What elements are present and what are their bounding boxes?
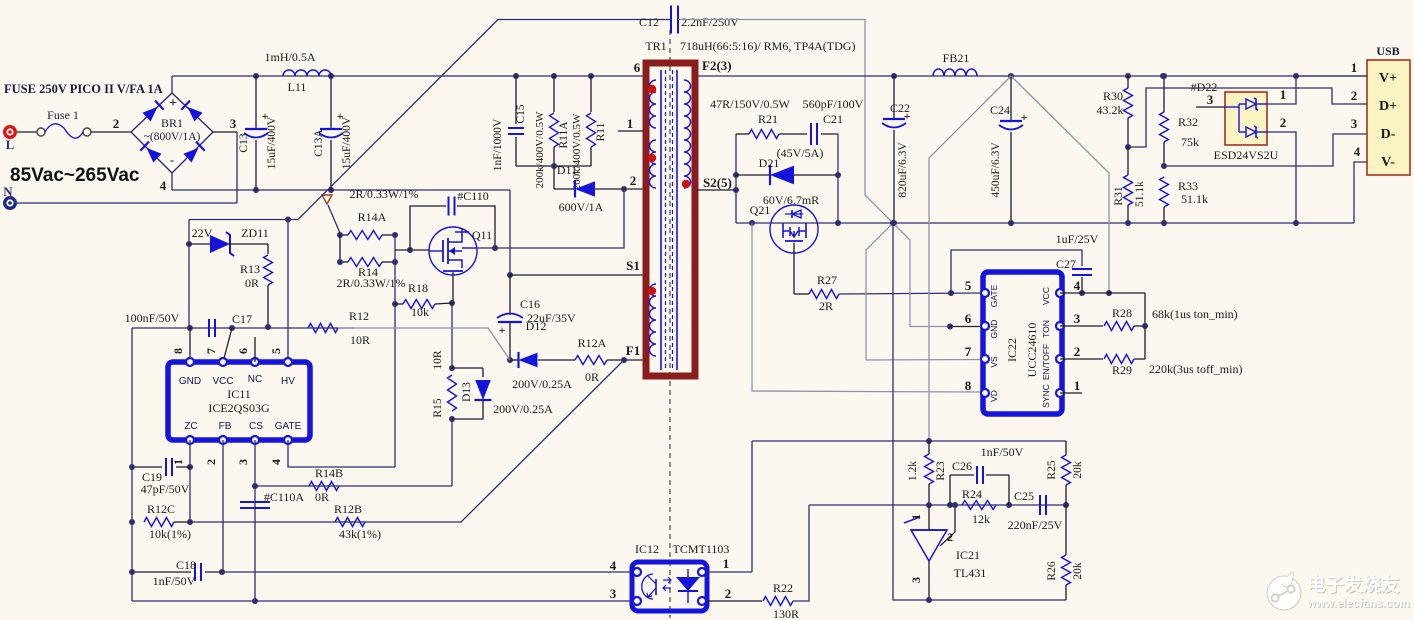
svg-text:43.2k: 43.2k — [1097, 103, 1124, 117]
IC12 pin circle — [633, 568, 641, 576]
junction C22 bottom — [891, 220, 897, 226]
svg-text:CS: CS — [249, 421, 263, 432]
ESD array #D22 box — [1225, 92, 1267, 145]
wire ZD11 anode lead — [189, 243, 211, 245]
junction C13 bottom — [253, 187, 259, 193]
wire #C110 left leg — [410, 206, 446, 250]
wire VCC feed from output — [1011, 76, 1109, 293]
svg-text:130R: 130R — [773, 607, 799, 620]
TR1 core dashed right — [672, 70, 674, 370]
wire C12 net diagonal — [189, 20, 498, 220]
junction R14A left — [337, 232, 343, 238]
IC12 pin circle — [698, 597, 706, 605]
IC11 pin 4 circle — [284, 436, 292, 444]
resistor R14A — [348, 231, 382, 240]
capacitor #C110A — [240, 501, 270, 503]
wire C27 loop — [951, 250, 1082, 293]
junction HV column — [285, 217, 291, 223]
wire Q11 source — [452, 272, 454, 303]
svg-text:VCC: VCC — [212, 376, 233, 387]
capacitor C18 — [194, 563, 196, 581]
svg-text:R15: R15 — [432, 398, 444, 417]
svg-text:R11A: R11A — [558, 121, 570, 149]
wire +5V top rail (secondary) — [697, 75, 1368, 77]
IC11 pin 6 circle — [251, 358, 259, 366]
wire C12 to secondary ground — [678, 20, 893, 224]
wire primary gnd bottom rail — [132, 600, 632, 602]
svg-text:D-: D- — [1381, 127, 1396, 142]
wire R14 left link — [340, 261, 348, 263]
wire R12A to F1 — [607, 359, 644, 361]
IC11 pin 8 stub — [189, 328, 191, 362]
net port marker (primary return) — [322, 195, 332, 204]
optocoupler IC12 box — [632, 562, 707, 611]
svg-text:1: 1 — [909, 514, 923, 520]
capacitor C26 — [976, 466, 978, 484]
IC12 pin circle — [633, 597, 641, 605]
svg-text:R28: R28 — [1112, 306, 1132, 320]
svg-text:51.1k: 51.1k — [1181, 192, 1208, 206]
svg-text:2: 2 — [947, 530, 953, 544]
wire D21 box right column — [837, 134, 839, 223]
capacitor #C110 — [448, 197, 450, 216]
capacitor C15 — [508, 127, 524, 129]
svg-text:0R: 0R — [315, 490, 329, 504]
TR1 aux winding (S1-F1) — [650, 284, 657, 356]
#D22 diode lower — [1239, 131, 1246, 133]
IC11 pin 7 circle — [219, 358, 227, 366]
svg-text:VS: VS — [989, 356, 999, 368]
svg-text:D11: D11 — [557, 163, 577, 177]
resistor R15 — [448, 375, 457, 411]
wire R26 bottom lead — [1065, 585, 1067, 600]
resistor R11 wire bottom — [590, 147, 592, 166]
junction Q11 source/R18 — [449, 300, 455, 306]
svg-text:10k(1%): 10k(1%) — [149, 527, 191, 541]
svg-text:1: 1 — [1074, 378, 1081, 393]
svg-text:3: 3 — [1074, 311, 1081, 326]
capacitor C26 row — [950, 474, 974, 476]
junction GATE/C27 — [948, 290, 954, 296]
resistor R25 — [1062, 455, 1071, 485]
svg-text:FUSE 250V PICO II V/FA 1A: FUSE 250V PICO II V/FA 1A — [4, 82, 163, 96]
wire D13 bottom link — [452, 400, 483, 419]
resistor R18 — [403, 300, 435, 309]
transistor Q11 (primary MOSFET) — [429, 227, 477, 275]
svg-text:www.elecfans.com: www.elecfans.com — [1306, 598, 1409, 610]
wire C26 right — [986, 474, 1009, 476]
resistor R11 wire top — [590, 76, 592, 112]
junction R24 row right — [1006, 502, 1012, 508]
wire gnd kelvin to pin6 — [893, 223, 950, 327]
resistor R29 lead — [1060, 358, 1103, 360]
wire comp C26 left leg — [949, 475, 951, 505]
capacitor C13A wire top — [330, 76, 332, 128]
svg-text:15uF/400V: 15uF/400V — [266, 116, 278, 169]
svg-text:3: 3 — [610, 586, 617, 601]
svg-text:C13A: C13A — [313, 129, 325, 157]
IC22 pin 5 circle — [981, 289, 989, 297]
junction C18 left — [129, 569, 135, 575]
wire R13 top lead — [267, 244, 269, 254]
wire port to R14A node — [328, 205, 340, 233]
svg-text:4: 4 — [1074, 278, 1081, 293]
junction C17 right — [229, 325, 235, 331]
junction TL431 cathode — [926, 502, 932, 508]
wire R14B row — [255, 485, 452, 487]
capacitor C13 wire top — [255, 76, 257, 128]
wire Q11 gate — [395, 249, 429, 251]
svg-text:2R/0.33W/1%: 2R/0.33W/1% — [350, 187, 419, 201]
wire S1 to transformer — [510, 274, 644, 276]
svg-text:4: 4 — [1354, 144, 1361, 159]
resistor R11A wire top — [553, 76, 555, 112]
svg-text:10R: 10R — [432, 350, 444, 370]
svg-text:450uF/6.3V: 450uF/6.3V — [990, 142, 1002, 198]
wire C18 right — [205, 571, 222, 573]
resistor R31 lead — [1127, 147, 1129, 175]
junction C22 top — [891, 73, 897, 79]
diode D11 600V/1A — [575, 181, 595, 197]
svg-text:R31: R31 — [1113, 186, 1125, 205]
junction C15 top — [513, 73, 519, 79]
svg-text:GND: GND — [179, 376, 201, 387]
svg-text:1uF/25V: 1uF/25V — [1056, 232, 1099, 246]
svg-text:3: 3 — [230, 116, 237, 131]
junction R24 row left — [947, 502, 953, 508]
transformer TR1 outline — [646, 63, 695, 376]
junction C16/D12 node — [507, 357, 513, 363]
wire VCC row extension — [1060, 292, 1145, 294]
svg-text:C17: C17 — [232, 312, 252, 326]
junction R25 bottom/C25 — [1063, 502, 1069, 508]
junction pin1/V+ rail — [1293, 73, 1299, 79]
svg-text:R27: R27 — [817, 273, 837, 287]
wire D12 cathode lead — [510, 359, 519, 361]
svg-text:100nF/50V: 100nF/50V — [125, 311, 180, 325]
svg-text:2: 2 — [204, 459, 218, 465]
USB connector box — [1367, 60, 1410, 175]
capacitor C15 wire bottom — [515, 137, 517, 166]
wire negative rail — [172, 189, 510, 191]
svg-text:6: 6 — [965, 311, 972, 326]
svg-text:51.1k: 51.1k — [1134, 181, 1146, 207]
resistor R23 — [925, 454, 934, 484]
svg-text:1nF/50V: 1nF/50V — [981, 445, 1024, 459]
wire D21 anode lead — [794, 174, 838, 176]
svg-text:1.2k: 1.2k — [907, 461, 919, 481]
svg-text:GATE: GATE — [275, 421, 302, 432]
svg-text:EN/TOFF: EN/TOFF — [1041, 344, 1051, 380]
svg-text:22V: 22V — [192, 226, 213, 240]
svg-text:2: 2 — [1351, 88, 1358, 103]
junction snubber/D11 — [551, 163, 557, 169]
junction C13 top — [253, 73, 259, 79]
wire divider to opto column — [751, 441, 753, 572]
wire C21 to right column — [821, 133, 838, 135]
IC12 pin circle — [698, 568, 706, 576]
IC U11 box (IC11 ICE2QS03G) — [168, 362, 310, 440]
svg-text:+: + — [1021, 110, 1028, 124]
wire left column — [131, 328, 133, 601]
resistor R13 — [264, 255, 273, 285]
svg-text:IC21: IC21 — [956, 548, 980, 562]
wire feedback column from output — [929, 76, 1011, 441]
svg-text:2: 2 — [113, 116, 120, 131]
junction R13/VCC rail — [265, 324, 271, 330]
wire R14A right link — [382, 234, 395, 236]
wire VS sense from gnd — [866, 223, 893, 360]
resistor R18 lead right — [435, 303, 452, 304]
capacitor C17 — [208, 319, 210, 337]
IC12 phototransistor — [642, 574, 653, 599]
svg-text:IC22: IC22 — [1005, 338, 1019, 362]
IC22 pin 4 circle — [1056, 289, 1064, 297]
resistor R11 — [587, 113, 596, 147]
svg-text:ICE2QS03G: ICE2QS03G — [208, 401, 270, 415]
svg-text:GATE: GATE — [989, 284, 999, 307]
junction F1 — [621, 357, 627, 363]
junction R31 bottom — [1125, 220, 1131, 226]
bridge rectifier BR1 — [131, 93, 213, 173]
svg-text:+: + — [499, 323, 506, 337]
wire R27 to IC22 GATE — [839, 293, 983, 294]
svg-text:TCMT1103: TCMT1103 — [673, 542, 730, 556]
bridge diode top-left — [142, 107, 157, 122]
capacitor C21 — [810, 123, 812, 145]
junction #C110 tap — [407, 247, 413, 253]
watermark logo — [1266, 572, 1301, 610]
junction FB/C18 — [219, 569, 225, 575]
wire R12C to ZC — [174, 521, 190, 523]
junction R30/R31 — [1125, 144, 1131, 150]
svg-text:TL431: TL431 — [954, 566, 987, 580]
junction Q21 gate tap — [749, 220, 755, 226]
wire pin6 stub — [950, 326, 983, 328]
svg-text:6: 6 — [236, 348, 250, 354]
wire R14 parallel left — [339, 235, 341, 262]
svg-text:HV: HV — [281, 376, 295, 387]
wire R14A left link — [340, 234, 348, 236]
junction R11A top — [551, 73, 557, 79]
svg-text:SYNC: SYNC — [1041, 384, 1051, 408]
svg-text:1: 1 — [171, 459, 185, 465]
isolation barrier dashed line — [669, 30, 671, 618]
TR1 polarity dot winding B — [648, 154, 656, 162]
wire R13 bottom lead — [267, 285, 269, 327]
svg-text:R13: R13 — [240, 262, 260, 276]
wire D- feed — [1164, 134, 1368, 166]
wire D21 box left column — [735, 134, 737, 223]
IC11 pin 1 circle — [186, 436, 194, 444]
wire CS column upper — [254, 440, 256, 486]
wire N to node3 column — [17, 202, 237, 204]
wire R21 to C21 — [779, 133, 807, 135]
svg-text:85Vac~265Vac: 85Vac~265Vac — [10, 165, 140, 186]
resistor R30 — [1124, 88, 1133, 118]
wire R21 top row left — [736, 133, 749, 135]
junction TL431 anode — [926, 597, 932, 603]
svg-text:68k(1us ton_min): 68k(1us ton_min) — [1152, 307, 1238, 321]
wire VS to pin7 — [866, 359, 983, 362]
svg-text:TR1: TR1 — [645, 39, 666, 53]
svg-text:ZD11: ZD11 — [241, 226, 269, 240]
resistor R11A — [550, 113, 559, 147]
IC11 pin 2 circle — [219, 436, 227, 444]
diode D12 — [519, 353, 538, 368]
svg-text:F1: F1 — [626, 343, 640, 358]
svg-text:#C110A: #C110A — [264, 490, 305, 504]
svg-text:200V/0.25A: 200V/0.25A — [493, 402, 553, 416]
wire S1 node down — [509, 190, 511, 275]
svg-text:+: + — [169, 96, 177, 111]
junction CS bottom rail — [252, 598, 258, 604]
svg-text:75k: 75k — [1181, 135, 1199, 149]
svg-text:1nF/1000V: 1nF/1000V — [492, 118, 504, 171]
junction C17 left / GND pin — [187, 325, 193, 331]
bridge diode bottom-right — [183, 148, 198, 163]
IC22 pin 3 circle — [1056, 322, 1064, 330]
junction D21 right — [835, 172, 841, 178]
resistor R33 — [1160, 177, 1169, 207]
wire C16 top lead — [509, 275, 511, 315]
svg-text:R21: R21 — [758, 112, 778, 126]
svg-text:C21: C21 — [823, 112, 843, 126]
wire +400V top rail (left) — [172, 75, 644, 77]
svg-text:7: 7 — [965, 344, 972, 359]
capacitor C13 — [245, 128, 267, 130]
svg-text:R33: R33 — [1178, 179, 1198, 193]
diode D13 — [475, 380, 491, 400]
wire R28 right — [1134, 325, 1145, 327]
IC12 coupling arrows — [663, 577, 671, 591]
svg-text:15uF/400V: 15uF/400V — [341, 116, 353, 169]
resistor R25 lead top — [1065, 441, 1067, 455]
junction R11 top — [588, 73, 594, 79]
junction S2 node — [733, 187, 739, 193]
resistor R30 lead — [1127, 76, 1129, 88]
wire D13 leads — [482, 368, 484, 377]
wire source column — [451, 303, 453, 368]
capacitor C13A wire bottom — [330, 140, 332, 190]
wire D21 cathode lead — [736, 174, 770, 176]
IC IC21 TL431 — [928, 505, 930, 530]
junction R15 top — [449, 365, 455, 371]
wire node3 down to neutral — [236, 132, 238, 203]
IC22 pin 8 circle — [981, 389, 989, 397]
svg-text:D21: D21 — [759, 156, 780, 170]
svg-text:R29: R29 — [1112, 363, 1132, 377]
wire R12 to C16 node (VCC charge) — [338, 328, 510, 360]
wire C19 right — [176, 466, 190, 468]
wire CS filter column — [254, 486, 256, 601]
junction ZD11 node — [186, 241, 192, 247]
wire fuse to bridge node 2 — [91, 131, 131, 133]
diode D21 — [770, 166, 794, 185]
junction R32 top — [1161, 73, 1167, 79]
junction R28/R29 — [1142, 323, 1148, 329]
svg-text:8: 8 — [965, 378, 972, 393]
fuse F1 (Fuse 1) — [37, 128, 45, 136]
TR1 core line left — [660, 70, 662, 370]
resistor R26 — [1062, 555, 1071, 585]
svg-text:电子发烧友: 电子发烧友 — [1307, 574, 1400, 595]
svg-text:R12C: R12C — [147, 502, 175, 516]
svg-text:R12B: R12B — [334, 502, 362, 516]
svg-text:IC11: IC11 — [227, 387, 251, 401]
wire S2 to sync fet box — [697, 189, 736, 191]
wire R14 right link — [382, 261, 395, 263]
svg-text:R12: R12 — [349, 309, 369, 323]
svg-text:R11: R11 — [595, 122, 607, 141]
resistor R11A wire bottom — [553, 147, 555, 166]
IC11 pin 8 circle — [186, 358, 194, 366]
svg-text:N: N — [3, 184, 13, 199]
svg-text:4: 4 — [269, 459, 283, 465]
svg-text:ESD24VS2U: ESD24VS2U — [1214, 148, 1279, 162]
svg-text:C25: C25 — [1014, 489, 1034, 503]
bridge diode top-right — [188, 107, 203, 122]
terminal L (line input) — [3, 125, 17, 139]
junction V+ rail end — [1160, 73, 1166, 79]
svg-text:2.2nF/250V: 2.2nF/250V — [681, 15, 739, 29]
ferrite bead FB21 — [933, 69, 977, 76]
IC22 pin 2 circle — [1056, 355, 1064, 363]
junction gate/R18 — [392, 301, 398, 307]
wire ZD11 feed down — [188, 220, 190, 329]
svg-text:200k/400V/0.5W: 200k/400V/0.5W — [534, 111, 546, 188]
TR1 primary winding B (pins 1-2) — [650, 140, 657, 188]
svg-text:10k: 10k — [411, 305, 429, 319]
resistor R27 — [809, 290, 839, 299]
junction S1 node — [507, 272, 513, 278]
wire opto cathode row — [809, 504, 1066, 506]
svg-text:R26: R26 — [1046, 561, 1058, 580]
junction C13A bottom — [328, 187, 334, 193]
wire R25 bottom lead — [1065, 485, 1067, 505]
IC U22 box (IC22 UCC24610) — [983, 272, 1062, 414]
svg-text:FB21: FB21 — [943, 51, 970, 65]
wire C19 row — [132, 466, 162, 468]
svg-text:IC12: IC12 — [635, 542, 659, 556]
wire D11 cathode lead — [554, 188, 576, 190]
junction pin2 gnd — [1293, 220, 1299, 226]
svg-text:3: 3 — [909, 577, 923, 583]
IC12 LED — [676, 577, 700, 591]
svg-text:10R: 10R — [350, 333, 370, 347]
IC11 pin 5 circle — [284, 358, 292, 366]
svg-text:C24: C24 — [990, 103, 1010, 117]
svg-text:USB: USB — [1376, 44, 1399, 58]
svg-text:0R: 0R — [245, 276, 259, 290]
wire VCC rail — [132, 327, 354, 329]
junction Q21 drain — [835, 220, 841, 226]
capacitor C24 bottom lead — [1010, 132, 1012, 223]
resistor R23 lead — [928, 441, 930, 454]
svg-text:C26: C26 — [952, 459, 972, 473]
inductor L11 — [283, 70, 331, 76]
resistor R28 lead — [1060, 325, 1103, 327]
svg-text:3: 3 — [1351, 116, 1358, 131]
wire bridge - down — [171, 173, 173, 190]
svg-text:L11: L11 — [288, 80, 307, 94]
capacitor C22 top lead — [893, 76, 895, 118]
junction ZC/C19 — [187, 464, 193, 470]
wire R29 right — [1134, 358, 1145, 360]
transistor Q21 (sync rectifier MOSFET) — [770, 205, 818, 253]
svg-text:3: 3 — [236, 459, 250, 465]
TR1 secondary winding (F2-S2) — [684, 80, 691, 188]
